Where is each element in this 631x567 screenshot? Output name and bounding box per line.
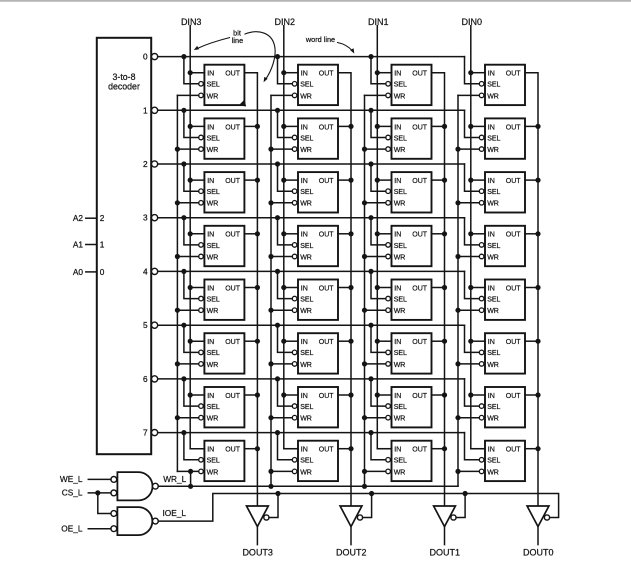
memory cell row 2 col 2 [292,172,338,212]
svg-text:WR: WR [394,469,406,476]
svg-text:WR: WR [300,469,312,476]
wire WR r4c2 [365,309,386,311]
svg-text:SEL: SEL [300,350,313,357]
svg-text:SEL: SEL [394,82,407,89]
wire OUT r4c3 [525,287,538,289]
svg-text:WR: WR [487,362,499,369]
wire IN r1c1 [284,125,298,127]
svg-text:DIN0: DIN0 [462,17,483,27]
memory cell row 4 col 1 [386,280,432,320]
svg-text:SEL: SEL [487,350,500,357]
svg-text:OUT: OUT [319,339,335,346]
svg-text:SEL: SEL [207,350,220,357]
svg-text:WR: WR [207,201,219,208]
svg-text:CS_L: CS_L [62,488,83,498]
wire SEL r2c2 [371,164,386,191]
wire IN r5c3 [471,340,485,342]
wire IN r4c3 [471,287,485,289]
wire SEL r3c3 [465,218,480,245]
wire OUT r5c2 [432,340,445,342]
wire IN r2c1 [284,179,298,181]
svg-text:OE_L: OE_L [61,524,83,534]
wire WR r5c1 [271,363,292,365]
wire IN r1c0 [190,125,204,127]
wire WR r7c3 [458,470,479,472]
wire SEL r6c2 [371,379,386,406]
svg-text:2: 2 [100,213,105,223]
svg-text:SEL: SEL [487,404,500,411]
svg-text:SEL: SEL [487,82,500,89]
DIN3 bit line (vertical) [190,26,204,449]
svg-text:WR: WR [207,93,219,100]
decoder output pin 4 (bubble) [143,266,158,276]
bit output line col 1 [432,73,445,506]
enable wire DOUT3 [269,494,278,518]
wire OUT r2c0 [244,179,257,181]
svg-text:DOUT2: DOUT2 [336,548,367,558]
wire IN r2c2 [377,179,391,181]
svg-text:SEL: SEL [487,297,500,304]
svg-text:OUT: OUT [506,124,522,131]
wire IN r0c0 [190,72,204,74]
wire SEL r3c0 [184,218,199,245]
memory cell row 5 col 1 [386,333,432,373]
svg-text:SEL: SEL [394,135,407,142]
output wire DOUT1 [444,527,446,545]
svg-text:SEL: SEL [394,189,407,196]
wire OUT r5c3 [525,340,538,342]
svg-text:IN: IN [301,124,308,131]
wire WR r4c3 [458,309,479,311]
wire WR r4c0 [177,309,198,311]
output wire DOUT3 [256,527,258,545]
input OE_L [61,524,111,534]
wire WR r3c1 [271,256,292,258]
wire WR r7c2 [365,470,386,472]
wire OUT r1c3 [525,125,538,127]
wire IN r0c3 [471,72,485,74]
wire WR r6c1 [271,417,292,419]
wire IN r2c3 [471,179,485,181]
bit output line col 3 [244,73,257,506]
svg-text:7: 7 [143,428,148,438]
svg-text:OUT: OUT [319,393,335,400]
word line 7 [158,432,465,434]
wire OUT r6c2 [432,394,445,396]
word line 0 [158,56,465,58]
memory cell row 4 col 2 [292,280,338,320]
svg-text:SEL: SEL [300,458,313,465]
memory cell row 1 col 1 [386,118,432,158]
decoder output pin 5 (bubble) [143,320,158,330]
svg-text:IN: IN [488,178,495,185]
wire IN r4c1 [284,287,298,289]
svg-text:line: line [232,36,243,45]
wire SEL r7c2 [371,433,386,460]
memory cell row 1 col 2 [292,118,338,158]
svg-text:WR: WR [394,93,406,100]
svg-text:A1: A1 [73,240,84,250]
svg-text:OUT: OUT [319,447,335,454]
wire OUT r4c1 [338,287,351,289]
wire SEL r2c3 [465,164,480,191]
svg-text:IN: IN [207,393,214,400]
svg-text:WR: WR [394,416,406,423]
svg-text:OUT: OUT [225,393,241,400]
NAND gate U3 (IOE_L) [111,507,158,535]
svg-text:OUT: OUT [506,71,522,78]
svg-text:SEL: SEL [487,135,500,142]
memory cell row 6 col 3 [199,387,245,427]
svg-text:DIN1: DIN1 [368,17,389,27]
svg-text:IN: IN [301,232,308,239]
wire OUT r5c1 [338,340,351,342]
svg-text:IN: IN [207,124,214,131]
memory cell row 0 col 2 [292,65,338,105]
wire SEL r5c2 [371,325,386,352]
memory cell row 4 col 0 [479,280,525,320]
wire IN r1c2 [377,125,391,127]
memory cell row 7 col 0 [479,441,525,481]
WR column line col 1 [364,95,366,486]
decoder output pin 1 (bubble) [143,105,158,115]
wire IN r6c2 [377,394,391,396]
svg-text:SEL: SEL [394,297,407,304]
svg-text:IN: IN [207,232,214,239]
svg-text:IN: IN [394,447,401,454]
svg-text:IN: IN [488,393,495,400]
svg-text:WR: WR [207,254,219,261]
wire OUT r7c3 [525,448,538,450]
svg-text:IN: IN [394,285,401,292]
svg-text:OUT: OUT [412,393,428,400]
svg-text:SEL: SEL [394,243,407,250]
wire OUT r4c0 [244,287,257,289]
svg-text:SEL: SEL [207,243,220,250]
svg-text:decoder: decoder [108,81,140,91]
wire WR r6c3 [458,417,479,419]
svg-text:SEL: SEL [207,82,220,89]
svg-text:OUT: OUT [319,178,335,185]
wire IN r6c0 [190,394,204,396]
svg-text:OUT: OUT [506,178,522,185]
svg-text:SEL: SEL [207,458,220,465]
wire IN r7c0 [190,448,204,450]
WR column line col 3 [176,95,178,471]
wire OUT r6c3 [525,394,538,396]
wire WR r7c0 [177,470,198,472]
DIN0 bit line (vertical) [471,26,485,449]
wire IN r7c3 [471,448,485,450]
memory cell row 0 col 0 [479,65,525,105]
svg-text:SEL: SEL [487,458,500,465]
svg-text:WR: WR [300,254,312,261]
wire WR r5c3 [458,363,479,365]
svg-text:WR: WR [487,93,499,100]
svg-text:IN: IN [394,393,401,400]
wire SEL r3c1 [278,218,293,245]
memory cell row 6 col 0 [479,387,525,427]
wire OUT r3c1 [338,233,351,235]
svg-text:IN: IN [301,339,308,346]
svg-text:4: 4 [143,266,148,276]
wire SEL r0c3 [465,57,480,84]
memory cell row 7 col 1 [386,441,432,481]
svg-text:WR: WR [487,201,499,208]
wire WR r4c1 [271,309,292,311]
svg-text:WR: WR [300,93,312,100]
wire SEL r7c1 [278,433,293,460]
svg-text:OUT: OUT [225,285,241,292]
wire SEL r0c0 [184,57,199,84]
svg-text:OUT: OUT [412,447,428,454]
3-to-8 decoder U1 [97,38,151,454]
svg-text:OUT: OUT [319,285,335,292]
memory cell row 6 col 2 [292,387,338,427]
wire OUT r7c2 [432,448,445,450]
output wire DOUT0 [537,527,539,545]
net WR_L line [158,485,458,487]
wire SEL r6c1 [278,379,293,406]
wire IN r3c0 [190,233,204,235]
svg-text:5: 5 [143,320,148,330]
word line 4 [158,270,465,272]
NAND gate U2 (WR_L) [111,472,158,500]
svg-text:OUT: OUT [225,178,241,185]
svg-text:WR: WR [207,147,219,154]
tri-state buffer DOUT2 [340,506,363,527]
svg-text:6: 6 [143,374,148,384]
memory cell row 6 col 1 [386,387,432,427]
svg-text:IN: IN [488,285,495,292]
svg-text:WR_L: WR_L [163,474,186,484]
svg-text:OUT: OUT [319,232,335,239]
wire IN r5c0 [190,340,204,342]
svg-text:OUT: OUT [319,71,335,78]
svg-text:OUT: OUT [225,232,241,239]
svg-text:WE_L: WE_L [60,474,83,484]
wire WR r1c2 [365,148,386,150]
memory cell row 2 col 3 [199,172,245,212]
wire IN r3c2 [377,233,391,235]
svg-text:0: 0 [143,52,148,62]
wire IN r0c1 [284,72,298,74]
memory cell row 3 col 2 [292,226,338,266]
svg-text:SEL: SEL [207,297,220,304]
svg-text:IN: IN [301,285,308,292]
wire IN r0c2 [377,72,391,74]
word line 2 [158,163,465,165]
svg-text:SEL: SEL [207,189,220,196]
svg-text:SEL: SEL [300,297,313,304]
word line 5 [158,324,465,326]
svg-text:OUT: OUT [225,124,241,131]
svg-text:DIN3: DIN3 [181,17,202,27]
svg-text:IN: IN [207,339,214,346]
wire IN r6c3 [471,394,485,396]
svg-text:IN: IN [301,447,308,454]
wire WR r2c1 [271,202,292,204]
svg-text:IN: IN [207,71,214,78]
memory cell row 5 col 0 [479,333,525,373]
decoder output pin 6 (bubble) [143,374,158,384]
svg-text:WR: WR [207,362,219,369]
svg-text:OUT: OUT [412,285,428,292]
wire OUT r3c0 [244,233,257,235]
svg-text:DOUT0: DOUT0 [523,548,554,558]
memory cell row 1 col 0 [479,118,525,158]
wire OUT r2c2 [432,179,445,181]
memory cell row 3 col 1 [386,226,432,266]
svg-text:IN: IN [207,178,214,185]
memory cell row 3 col 0 [479,226,525,266]
svg-text:WR: WR [394,201,406,208]
svg-text:SEL: SEL [300,404,313,411]
wire IN r3c3 [471,233,485,235]
input WE_L [60,474,111,484]
wire SEL r7c0 [184,433,199,460]
wire SEL r6c3 [465,379,480,406]
svg-text:WR: WR [300,201,312,208]
wire WR r2c2 [365,202,386,204]
memory cell row 1 col 3 [199,118,245,158]
svg-text:WR: WR [207,416,219,423]
annotation bit line [194,29,275,83]
wire SEL r5c3 [465,325,480,352]
wire OUT r6c1 [338,394,351,396]
svg-text:IN: IN [488,447,495,454]
tri-state buffer DOUT0 [527,506,550,527]
memory cell row 5 col 3 [199,333,245,373]
svg-text:OUT: OUT [506,447,522,454]
wire SEL r7c3 [465,433,480,460]
wire SEL r4c0 [184,271,199,298]
svg-text:WR: WR [487,469,499,476]
word line 6 [158,378,465,380]
svg-text:WR: WR [300,416,312,423]
memory cell row 2 col 0 [479,172,525,212]
svg-text:IN: IN [488,71,495,78]
decoder output pin 0 (bubble) [143,52,158,62]
wire IN r7c1 [284,448,298,450]
DIN1 bit line (vertical) [377,26,391,449]
WR column line col 2 [270,95,272,486]
wire SEL r0c1 [278,57,293,84]
memory cell row 7 col 3 [199,441,245,481]
wire OUT r7c0 [244,448,257,450]
svg-text:WR: WR [487,147,499,154]
svg-text:WR: WR [394,308,406,315]
svg-text:WR: WR [394,362,406,369]
svg-text:DOUT3: DOUT3 [242,548,273,558]
wire SEL r2c1 [278,164,293,191]
input A2 wire and pin 2 [73,213,105,223]
wire SEL r4c2 [371,271,386,298]
wire SEL r1c1 [278,110,293,137]
wire WR r1c0 [177,148,198,150]
memory cell row 5 col 2 [292,333,338,373]
svg-text:IN: IN [394,232,401,239]
tri-state buffer DOUT3 [247,506,270,527]
wire WR r0c3 [458,94,479,96]
svg-text:IN: IN [301,393,308,400]
wire WR r5c0 [177,363,198,365]
svg-text:word line: word line [305,35,335,44]
wire IN r3c1 [284,233,298,235]
svg-text:IN: IN [301,71,308,78]
wire OUT r2c1 [338,179,351,181]
memory cell row 0 col 1 [386,65,432,105]
wire SEL r4c3 [465,271,480,298]
net IOE_L line [158,494,558,522]
output wire DOUT2 [350,527,352,545]
wire OUT r1c1 [338,125,351,127]
annotation word line [305,35,354,54]
memory cell row 7 col 2 [292,441,338,481]
svg-text:WR: WR [300,362,312,369]
wire WR r1c3 [458,148,479,150]
wire SEL r6c0 [184,379,199,406]
svg-text:IN: IN [301,178,308,185]
svg-text:2: 2 [143,159,148,169]
svg-text:IN: IN [207,447,214,454]
wire WR r0c1 [271,94,292,96]
svg-text:IN: IN [488,339,495,346]
memory cell row 4 col 3 [199,280,245,320]
svg-text:OUT: OUT [412,232,428,239]
svg-text:SEL: SEL [207,135,220,142]
decoder output pin 2 (bubble) [143,159,158,169]
wire WR r1c1 [271,148,292,150]
svg-text:OUT: OUT [225,447,241,454]
svg-text:A2: A2 [73,213,84,223]
svg-text:IN: IN [488,124,495,131]
svg-text:3-to-8: 3-to-8 [113,72,136,82]
wire SEL r1c3 [465,110,480,137]
svg-text:SEL: SEL [394,350,407,357]
svg-text:OUT: OUT [506,285,522,292]
svg-text:WR: WR [207,308,219,315]
enable wire DOUT1 [456,494,465,518]
svg-text:1: 1 [143,105,148,115]
svg-text:1: 1 [100,240,105,250]
wire IN r1c3 [471,125,485,127]
tri-state buffer DOUT1 [434,506,457,527]
svg-text:IN: IN [394,71,401,78]
wire SEL r2c0 [184,164,199,191]
wire WR r7c1 [271,470,292,472]
svg-text:SEL: SEL [394,404,407,411]
svg-text:OUT: OUT [412,178,428,185]
wire OUT r6c0 [244,394,257,396]
svg-text:WR: WR [300,308,312,315]
svg-text:WR: WR [207,469,219,476]
svg-text:OUT: OUT [412,339,428,346]
svg-text:WR: WR [394,254,406,261]
bit output line col 0 [525,73,538,506]
svg-text:OUT: OUT [412,124,428,131]
svg-text:SEL: SEL [300,82,313,89]
svg-text:SEL: SEL [300,189,313,196]
wire SEL r1c2 [371,110,386,137]
wire CS_L branch [98,493,111,514]
svg-text:WR: WR [487,416,499,423]
wire WR r0c0 [177,94,198,96]
svg-text:IN: IN [394,178,401,185]
wire WR r6c0 [177,417,198,419]
word line 1 [158,109,465,111]
svg-text:DOUT1: DOUT1 [430,548,461,558]
